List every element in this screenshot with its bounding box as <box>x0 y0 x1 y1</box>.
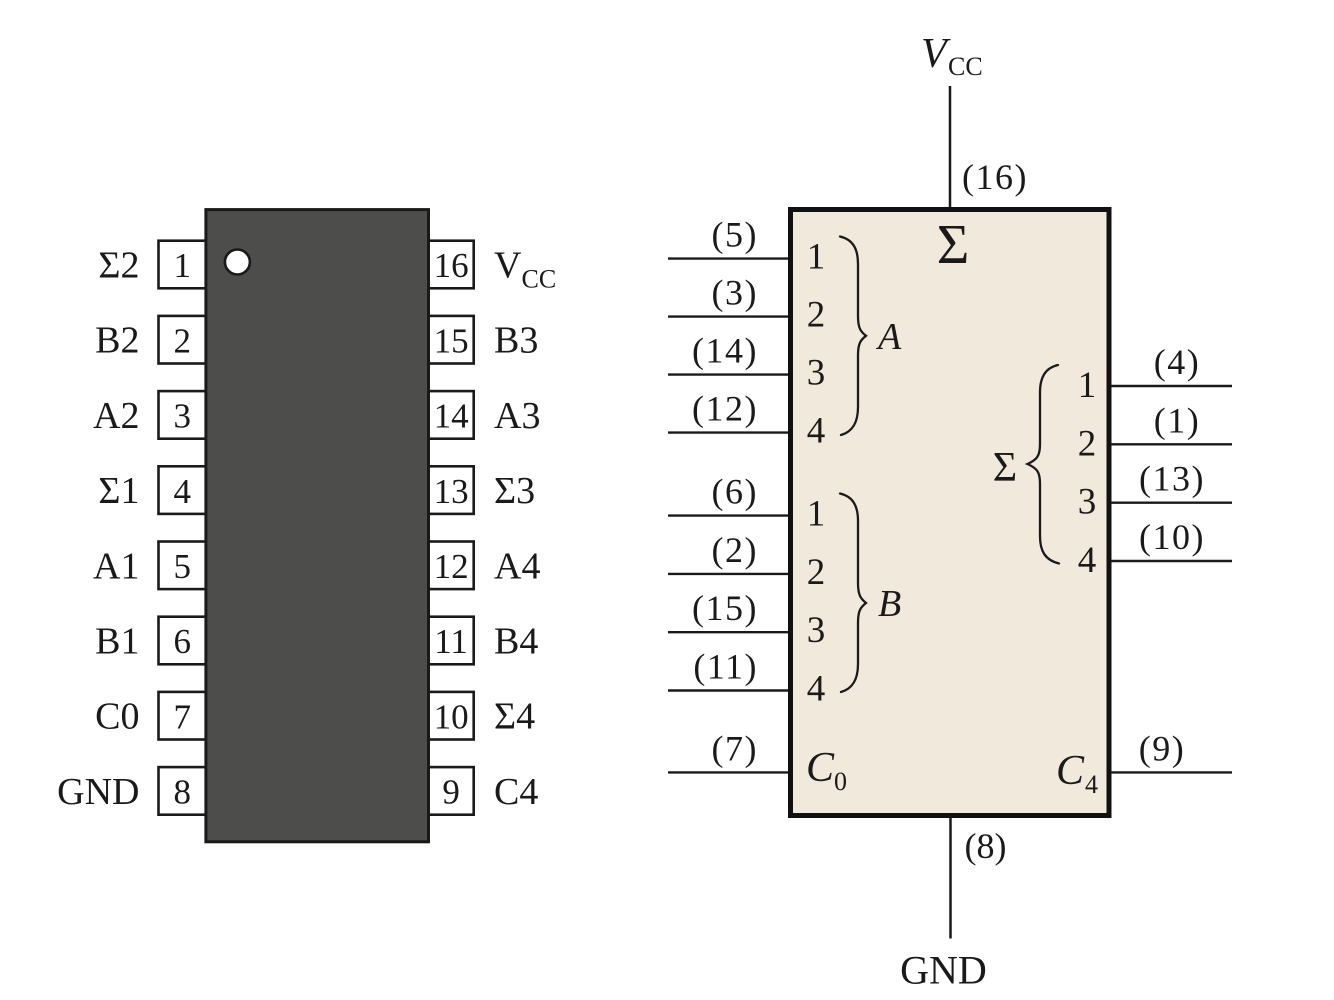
svg-text:C0: C0 <box>95 696 139 738</box>
brace for A group <box>840 237 866 436</box>
svg-text:A4: A4 <box>494 545 540 587</box>
pin 3 box <box>159 391 206 439</box>
svg-text:Σ2: Σ2 <box>98 245 139 287</box>
wire B2 input <box>668 573 788 575</box>
pin 13 box <box>429 466 474 514</box>
svg-text:16: 16 <box>434 246 469 285</box>
pin 16 box <box>429 241 474 289</box>
svg-text:3: 3 <box>1078 482 1097 523</box>
svg-text:2: 2 <box>807 552 826 593</box>
svg-text:(7): (7) <box>712 728 758 768</box>
svg-text:C4: C4 <box>494 771 538 813</box>
svg-text:CC: CC <box>948 52 983 81</box>
svg-text:(5): (5) <box>712 215 758 255</box>
wire C4 output <box>1111 771 1232 773</box>
svg-text:3: 3 <box>807 610 826 651</box>
wire A2 input <box>668 315 788 317</box>
svg-text:Σ1: Σ1 <box>98 470 139 512</box>
svg-text:A2: A2 <box>93 395 139 437</box>
svg-text:10: 10 <box>434 697 469 736</box>
svg-text:GND: GND <box>900 948 987 993</box>
svg-text:(3): (3) <box>712 273 758 313</box>
svg-text:Σ3: Σ3 <box>494 470 535 512</box>
svg-text:4: 4 <box>807 411 826 452</box>
brace for sum group <box>1028 365 1060 564</box>
svg-text:(8): (8) <box>965 826 1007 866</box>
svg-text:V: V <box>494 245 522 287</box>
svg-text:C: C <box>806 745 835 791</box>
svg-text:(11): (11) <box>693 647 758 687</box>
wire sum2 output <box>1111 443 1232 445</box>
svg-text:2: 2 <box>1078 423 1097 464</box>
pin 7 box <box>159 692 206 740</box>
pin 15 box <box>429 316 474 364</box>
svg-text:7: 7 <box>173 697 191 736</box>
svg-text:4: 4 <box>173 472 191 511</box>
wire B3 input <box>668 631 788 633</box>
svg-text:4: 4 <box>1085 770 1098 799</box>
svg-text:(12): (12) <box>692 389 758 429</box>
svg-text:4: 4 <box>1078 540 1097 581</box>
svg-text:2: 2 <box>807 295 826 336</box>
svg-text:3: 3 <box>173 397 191 436</box>
pin 4 box <box>159 466 206 514</box>
svg-text:3: 3 <box>807 353 826 394</box>
wire C0 input <box>668 771 788 773</box>
wire A4 input <box>668 431 788 433</box>
svg-text:A: A <box>875 316 902 358</box>
svg-text:2: 2 <box>173 321 191 360</box>
svg-text:CC: CC <box>522 265 557 294</box>
svg-text:A1: A1 <box>93 545 139 587</box>
svg-text:Σ: Σ <box>993 445 1017 491</box>
svg-text:12: 12 <box>434 547 469 586</box>
brace for B group <box>840 494 866 693</box>
svg-text:0: 0 <box>834 767 847 796</box>
svg-text:(13): (13) <box>1139 459 1205 499</box>
svg-text:11: 11 <box>434 622 468 661</box>
svg-text:(15): (15) <box>692 588 758 628</box>
svg-text:B1: B1 <box>95 621 139 663</box>
svg-text:(6): (6) <box>712 472 758 512</box>
svg-text:Σ: Σ <box>937 214 970 276</box>
svg-text:14: 14 <box>434 397 469 436</box>
svg-text:9: 9 <box>442 773 460 812</box>
svg-text:(16): (16) <box>962 157 1028 197</box>
svg-text:Σ4: Σ4 <box>494 696 535 738</box>
pin 2 box <box>159 316 206 364</box>
svg-text:1: 1 <box>173 246 191 285</box>
svg-text:13: 13 <box>434 472 469 511</box>
svg-text:(1): (1) <box>1154 400 1200 440</box>
VCC supply wire <box>949 86 952 207</box>
adder block body <box>791 210 1110 816</box>
svg-text:(2): (2) <box>712 530 758 570</box>
wire sum3 output <box>1111 502 1232 504</box>
svg-text:B: B <box>878 583 901 625</box>
svg-text:1: 1 <box>807 494 826 535</box>
pin 5 box <box>159 542 206 590</box>
svg-text:C: C <box>1056 748 1085 794</box>
svg-text:B4: B4 <box>494 621 538 663</box>
wire B1 input <box>668 514 788 516</box>
svg-text:6: 6 <box>173 622 191 661</box>
svg-text:(10): (10) <box>1139 517 1205 557</box>
svg-text:V: V <box>921 31 951 77</box>
pin 14 box <box>429 391 474 439</box>
wire sum1 output <box>1111 385 1232 387</box>
pin 6 box <box>159 617 206 665</box>
pin 12 box <box>429 542 474 590</box>
svg-text:1: 1 <box>807 237 826 278</box>
svg-text:5: 5 <box>173 547 191 586</box>
GND wire <box>949 818 952 939</box>
pin 10 box <box>429 692 474 740</box>
svg-text:(9): (9) <box>1139 728 1185 768</box>
svg-text:(4): (4) <box>1154 342 1200 382</box>
svg-text:4: 4 <box>807 669 826 710</box>
pin 8 box <box>159 767 206 815</box>
wire A1 input <box>668 257 788 259</box>
pin 9 box <box>429 767 474 815</box>
svg-text:B2: B2 <box>95 320 139 362</box>
wire A3 input <box>668 373 788 375</box>
wire B4 input <box>668 689 788 691</box>
svg-text:(14): (14) <box>692 331 758 371</box>
svg-text:A3: A3 <box>494 395 540 437</box>
pin 11 box <box>429 617 474 665</box>
svg-text:GND: GND <box>57 771 139 813</box>
pin 1 box <box>159 241 206 289</box>
svg-text:15: 15 <box>434 321 469 360</box>
svg-text:8: 8 <box>173 773 191 812</box>
svg-text:B3: B3 <box>494 320 538 362</box>
wire sum4 output <box>1111 560 1232 562</box>
pin 1 index dot <box>225 250 250 275</box>
DIP chip body U1 <box>206 210 429 842</box>
svg-text:1: 1 <box>1078 365 1097 406</box>
